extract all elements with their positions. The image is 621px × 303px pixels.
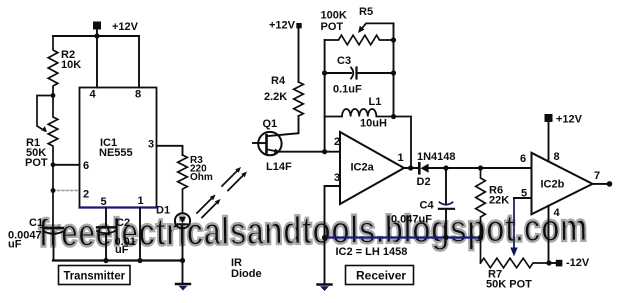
wire receiver ground rail (325, 236, 481, 238)
resistor R1 potentiometer (48, 96, 58, 229)
label Receiver box (346, 266, 414, 285)
svg-text:Receiver: Receiver (356, 269, 406, 283)
node junction pin2 (51, 188, 56, 193)
svg-text:L1: L1 (369, 96, 382, 108)
svg-text:C3: C3 (337, 55, 351, 67)
svg-text:8: 8 (554, 151, 560, 163)
svg-text:0.1uF: 0.1uF (333, 84, 362, 96)
resistor R2 (48, 36, 58, 96)
wire R4 top (298, 27, 300, 82)
svg-text:IC2b: IC2b (541, 179, 565, 191)
wire feedback left vertical (324, 40, 326, 152)
wire R5 wiper (361, 23, 394, 30)
node junction pin1 rail (137, 258, 142, 263)
+12V terminal IC2b (545, 114, 553, 122)
wire pin8 (548, 122, 550, 162)
svg-text:uF: uF (115, 244, 129, 256)
node junction rail R6 (478, 235, 483, 240)
+12V terminal transmitter (93, 22, 101, 30)
+12V terminal R4 (296, 23, 301, 28)
node junction output feedback (408, 165, 413, 170)
diode D2 1N4148 (418, 163, 421, 173)
wire pin2 dotted (53, 190, 80, 192)
op-amp IC2a (340, 132, 404, 204)
node junction C2 rail (103, 258, 108, 263)
svg-text:D1: D1 (156, 205, 170, 217)
svg-text:IC2a: IC2a (351, 162, 375, 174)
svg-text:5: 5 (521, 188, 527, 200)
-12V terminal (556, 260, 563, 267)
svg-text:-12V: -12V (566, 257, 590, 269)
svg-text:IC2 = LH 1458: IC2 = LH 1458 (336, 246, 408, 258)
svg-text:NE555: NE555 (99, 147, 133, 159)
resistor R3 (178, 155, 188, 214)
svg-text:+12V: +12V (556, 114, 583, 126)
svg-text:7: 7 (594, 170, 600, 182)
svg-text:100K: 100K (321, 10, 347, 22)
svg-text:C4: C4 (420, 200, 435, 212)
wire D2 to IC2b pin6 (429, 167, 532, 169)
transistor Q1 (258, 132, 281, 155)
svg-text:uF: uF (8, 239, 22, 251)
node junction pin6 (51, 162, 56, 167)
capacitor C1 (44, 227, 63, 229)
wire top rail transmitter (53, 35, 139, 37)
node junction R6 top (478, 165, 483, 170)
svg-text:Transmitter: Transmitter (64, 269, 126, 283)
ground receiver (324, 238, 326, 285)
IR emission arrow 2 (202, 202, 218, 218)
wire output pin7 (593, 183, 609, 185)
inductor L1 (325, 109, 411, 168)
svg-text:Q1: Q1 (263, 118, 278, 130)
svg-text:L14F: L14F (266, 161, 292, 173)
wire emitter to pin2 (278, 151, 340, 153)
svg-text:POT: POT (25, 157, 48, 169)
node junction LED bottom rail (180, 258, 185, 263)
wire pin6 (53, 164, 80, 166)
svg-text:10uH: 10uH (360, 118, 387, 130)
wire pin5 (514, 197, 532, 199)
svg-text:4: 4 (90, 89, 97, 101)
svg-text:R4: R4 (271, 75, 286, 87)
resistor R6 (476, 168, 486, 263)
svg-text:POT: POT (321, 21, 344, 33)
wire transmitter ground rail (53, 259, 183, 261)
svg-text:Diode: Diode (231, 268, 262, 280)
svg-text:1: 1 (138, 195, 144, 207)
resistor R4 (294, 82, 304, 116)
wire pin8 drop (138, 36, 140, 88)
wire to -12V (549, 262, 557, 264)
IR emission arrow 1 (197, 198, 213, 214)
svg-text:50K POT: 50K POT (486, 279, 532, 291)
svg-text:+12V: +12V (269, 20, 296, 32)
node junction C3 left (322, 70, 327, 75)
node junction R2 bottom (51, 93, 56, 98)
wire pin4 (548, 206, 550, 263)
node junction rail C4 (443, 235, 448, 240)
resistor R5 potentiometer (325, 35, 394, 45)
wire R7 wiper from pin5 (513, 198, 515, 249)
wire pin3 (157, 146, 183, 155)
IR emission arrow 3 (222, 170, 238, 186)
svg-text:6: 6 (520, 153, 526, 165)
wire pin1 drop (139, 208, 141, 261)
svg-text:1N4148: 1N4148 (417, 151, 456, 163)
capacitor C2 (105, 208, 107, 228)
wire collector (267, 116, 298, 136)
capacitor C3 (325, 72, 351, 74)
svg-text:2: 2 (334, 136, 340, 148)
op-amp IC2b (532, 153, 593, 215)
node junction (94, 33, 99, 38)
svg-text:8: 8 (135, 89, 141, 101)
LED D1 (175, 213, 190, 228)
node junction C4 top (443, 165, 448, 170)
svg-text:22K: 22K (489, 195, 509, 207)
wire feedback right vertical (393, 23, 395, 116)
ground transmitter (182, 261, 184, 284)
capacitor C4 (445, 168, 447, 203)
svg-text:2.2K: 2.2K (264, 91, 287, 103)
node junction R7 pin4 (546, 260, 551, 265)
node junction L1 right (391, 114, 396, 119)
node junction R5 right (391, 37, 396, 42)
svg-text:+12V: +12V (112, 21, 139, 33)
resistor R7 potentiometer (481, 258, 550, 268)
svg-text:D2: D2 (417, 176, 431, 188)
wire pin3 ground (325, 186, 341, 238)
svg-text:C1: C1 (29, 217, 43, 229)
wire output IC2a (404, 167, 419, 169)
svg-text:0.047uF: 0.047uF (391, 214, 432, 226)
node junction C3 right (391, 70, 396, 75)
op IC1 NE555 box (80, 88, 157, 208)
svg-text:4: 4 (554, 207, 561, 219)
svg-text:3: 3 (148, 139, 154, 151)
svg-text:R5: R5 (359, 6, 373, 18)
node junction rail left (322, 235, 327, 240)
svg-text:6: 6 (83, 160, 89, 172)
svg-text:5: 5 (101, 196, 107, 208)
svg-text:C2: C2 (116, 217, 130, 229)
wire pin4 drop (96, 36, 98, 88)
svg-text:1: 1 (398, 152, 404, 164)
label Transmitter box (59, 266, 131, 285)
wire (96, 30, 98, 37)
svg-text:2: 2 (83, 189, 89, 201)
wire wiper of R1 (37, 96, 53, 132)
IR emission arrow 4 (228, 175, 244, 191)
svg-text:3: 3 (334, 172, 340, 184)
svg-text:10K: 10K (61, 59, 81, 71)
node junction feedback left (322, 149, 327, 154)
svg-text:Ohm: Ohm (190, 172, 213, 183)
node output endpoint (607, 181, 613, 187)
